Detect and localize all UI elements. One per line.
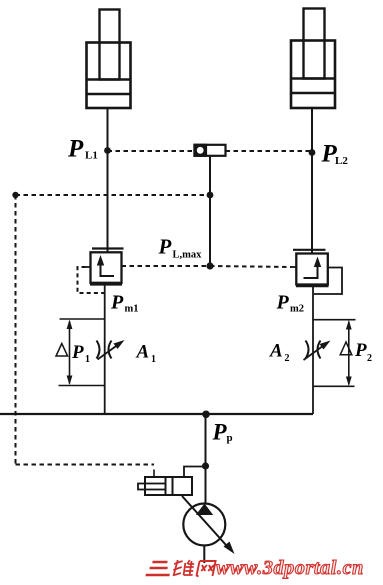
shuttle valve body <box>195 145 226 156</box>
svg-text:1: 1 <box>151 354 156 365</box>
pilot line y=195 (dashed) <box>16 194 211 196</box>
node P_Lmax <box>206 262 213 269</box>
cylinder left piston line 2 <box>87 93 131 95</box>
node junction at (210,195) <box>207 192 214 199</box>
pilot line shuttle valve to P_L2 (dashed) <box>226 150 313 152</box>
node P_L2 <box>309 149 316 156</box>
cylinder right piston line 2 <box>291 92 335 94</box>
label delta P2 <box>340 342 352 355</box>
compensator valve P_m2 box <box>296 254 328 285</box>
cylinder right rod <box>304 9 325 79</box>
compensator valve P_m1 box <box>91 252 122 282</box>
svg-text:www.3dportal.cn: www.3dportal.cn <box>216 557 364 579</box>
cylinder right body <box>291 41 335 109</box>
cylinder left body <box>87 43 131 109</box>
compensator valve P_m2 top double line <box>293 249 326 251</box>
svg-text:P: P <box>71 342 84 363</box>
wire pump suction <box>203 546 205 564</box>
svg-text:2: 2 <box>367 353 372 364</box>
svg-text:P: P <box>276 292 290 314</box>
measurement dp2 top tick <box>313 319 356 321</box>
wire control tap to actuator <box>184 467 206 478</box>
pilot line P_Lmax to left compensator (dashed) <box>122 265 211 267</box>
svg-text:A: A <box>136 342 150 363</box>
shuttle valve ball seat <box>195 145 207 156</box>
orifice A1 arcs <box>97 341 100 359</box>
actuator rod <box>138 484 166 490</box>
label delta P1 <box>56 344 68 357</box>
svg-text:P: P <box>67 136 84 163</box>
compensator valve P_m1 left stub <box>86 266 91 268</box>
wire pump supply line <box>205 414 207 504</box>
node P_L1 <box>104 147 111 154</box>
orifice A2 variable arrow <box>304 343 328 360</box>
compensator valve P_m1 thick bottom <box>90 283 122 286</box>
shuttle valve ball <box>197 147 204 154</box>
measurement dp1 bottom tick <box>59 385 105 387</box>
watermark <box>145 557 363 579</box>
compensator valve P_m1 right stub <box>122 265 127 267</box>
node P_P <box>202 411 210 419</box>
svg-text:A: A <box>269 341 283 362</box>
measurement dp1 double arrow <box>69 322 71 384</box>
pump circle <box>183 504 225 546</box>
orifice A1 variable arrow <box>98 343 122 360</box>
cylinder right piston line 1 <box>291 77 335 79</box>
svg-text:P: P <box>158 235 172 259</box>
wire left main line P_m1 to manifold <box>104 284 106 414</box>
wire supply manifold <box>0 413 313 415</box>
pilot line P_L1 to shuttle valve (dashed) <box>108 150 195 152</box>
compensator valve P_m1 top double line <box>92 247 124 249</box>
svg-text:L2: L2 <box>335 155 348 167</box>
variable displacement arrow through pump <box>182 496 231 550</box>
wire right main line P_m2 to manifold <box>312 286 314 414</box>
svg-text:L,max: L,max <box>173 250 203 261</box>
pilot line left edge vertical (dashed) <box>15 195 17 465</box>
measurement dp2 double arrow <box>348 322 350 385</box>
cylinder left rod <box>100 10 120 80</box>
compensator valve P_m2 internal flow arrow <box>304 264 318 278</box>
svg-text:m1: m1 <box>125 304 139 315</box>
svg-text:2: 2 <box>285 353 290 364</box>
svg-text:P: P <box>354 340 367 361</box>
actuator stub (pilot port) <box>153 470 155 478</box>
node control tap <box>202 462 209 469</box>
wire left cylinder to compensator P_m1 <box>107 108 109 252</box>
pilot line P_Lmax to right compensator (dashed) <box>210 266 292 267</box>
pilot line bottom to pump control (dashed) <box>16 464 155 466</box>
svg-text:1: 1 <box>85 354 90 365</box>
svg-text:m2: m2 <box>290 304 304 315</box>
orifice A2 arcs <box>306 341 309 359</box>
wire right cylinder to compensator P_m2 <box>311 108 313 254</box>
actuator body <box>145 477 192 495</box>
svg-text:P: P <box>110 292 124 314</box>
compensator valve P_m1 internal flow arrow <box>101 262 115 276</box>
svg-text:L1: L1 <box>85 150 98 162</box>
measurement dp1 top tick <box>60 318 105 320</box>
pump output triangle <box>196 504 213 516</box>
wire shuttle output down to P_Lmax node <box>209 156 211 266</box>
pilot feedback P_m1 (dashed) <box>78 267 106 293</box>
wire feedback P_m2 (solid) <box>314 268 342 295</box>
compensator valve P_m2 thick bottom <box>296 285 329 288</box>
node junction at (15.5,195) <box>12 192 18 198</box>
actuator piston <box>166 477 173 495</box>
svg-text:p: p <box>227 432 233 444</box>
compensator valve P_m2 left stub <box>292 266 297 268</box>
svg-text:P: P <box>212 420 228 445</box>
cylinder left piston line 1 <box>87 78 131 80</box>
measurement dp2 bottom tick <box>313 385 355 387</box>
